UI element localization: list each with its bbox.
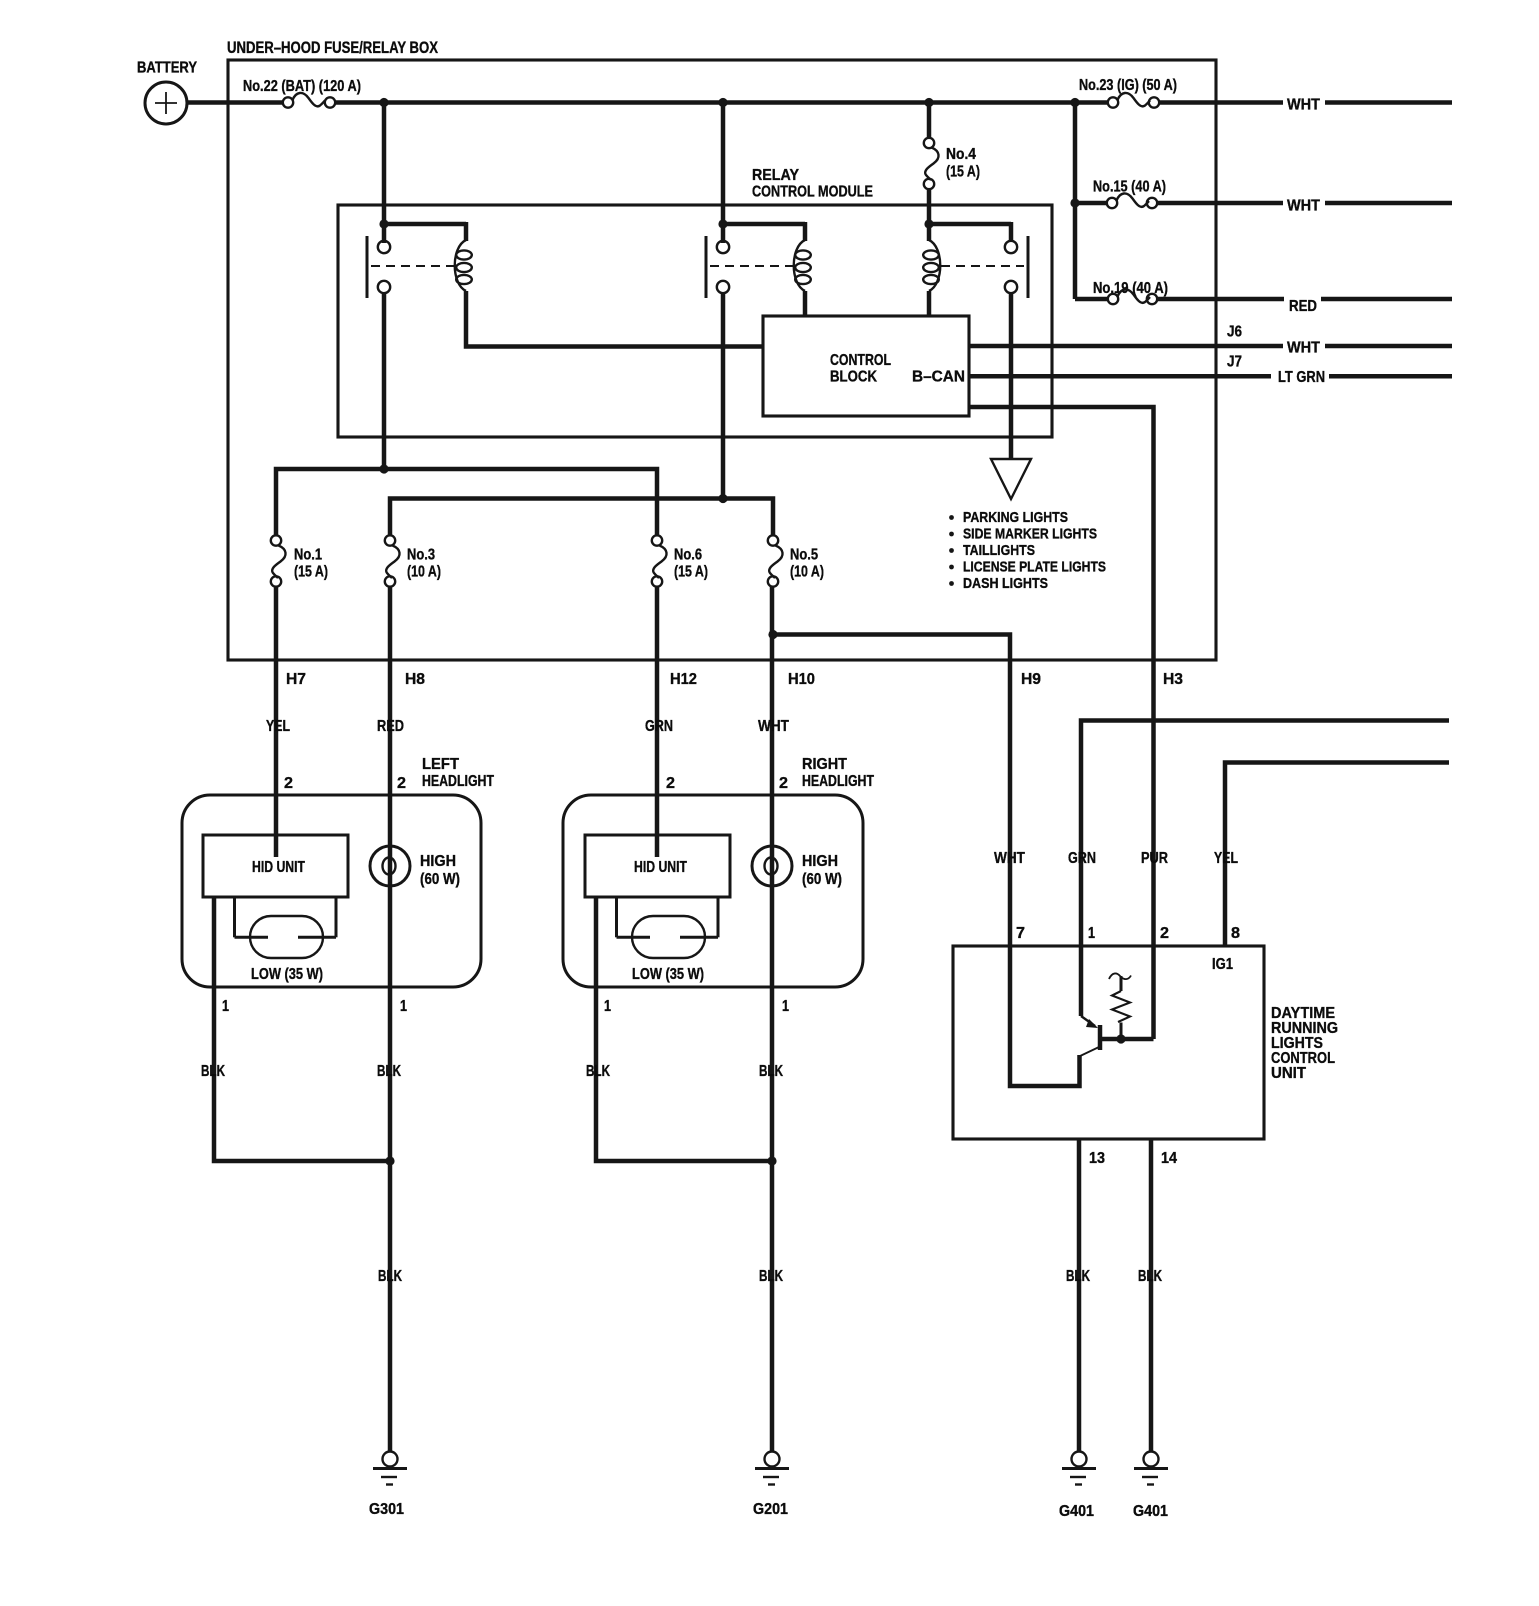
svg-text:WHT: WHT (1287, 97, 1320, 114)
svg-text:H12: H12 (670, 671, 697, 688)
right HID unit (585, 835, 730, 897)
wire relay2 contact output (721, 293, 726, 499)
svg-text:B–CAN: B–CAN (912, 369, 965, 386)
svg-text:G401: G401 (1133, 1503, 1168, 1520)
svg-text:(60 W): (60 W) (802, 871, 842, 888)
relay K3 (parking lights) (923, 222, 1028, 298)
svg-text:2: 2 (1160, 925, 1169, 942)
svg-text:LOW (35 W): LOW (35 W) (251, 966, 323, 983)
wire pin 13 to ground (1077, 1139, 1082, 1451)
svg-text:HIGH: HIGH (420, 853, 456, 870)
svg-text:GRN: GRN (1068, 850, 1096, 867)
wire main battery bus (335, 100, 1109, 105)
wire RED fuse No.3 to left high beam (388, 587, 393, 1162)
wire relay2 feed (721, 103, 726, 244)
battery B1 (137, 60, 197, 125)
node junction bus/relay1 feed (379, 98, 388, 107)
svg-text:BATTERY: BATTERY (137, 60, 197, 77)
svg-text:1: 1 (604, 998, 611, 1015)
svg-text:H10: H10 (788, 671, 815, 688)
wire GRN fuse No.6 to right HID (655, 587, 660, 858)
node junction bus/fuse No.4 feed (924, 98, 933, 107)
svg-text:No.3: No.3 (407, 547, 435, 564)
svg-text:BLK: BLK (1138, 1268, 1162, 1285)
svg-text:BLOCK: BLOCK (830, 369, 877, 386)
svg-text:No.6: No.6 (674, 547, 702, 564)
ground G401 right (1133, 1452, 1168, 1521)
svg-text:PUR: PUR (1141, 850, 1168, 867)
svg-text:SIDE MARKER LIGHTS: SIDE MARKER LIGHTS (963, 526, 1097, 543)
relay K1 (low beam) (367, 222, 472, 298)
resistor R1 (1109, 973, 1131, 1039)
svg-text:DASH LIGHTS: DASH LIGHTS (963, 575, 1048, 592)
wire WHT output of fuse No.23 (1159, 97, 1452, 114)
parking lights load list (949, 509, 1106, 592)
svg-text:No.4: No.4 (946, 146, 976, 163)
node junction IG/No.15 (1070, 198, 1079, 207)
wire battery positive to fuse No.22 (187, 100, 283, 105)
svg-text:G401: G401 (1059, 1503, 1094, 1520)
left low beam bulb LOW (35 W) (235, 897, 337, 983)
wire IG branch vertical (1073, 103, 1078, 300)
wire WHT pin7 to transistor emitter (1010, 946, 1080, 1086)
svg-text:BLK: BLK (586, 1063, 610, 1080)
left headlight assembly (182, 756, 494, 987)
svg-text:14: 14 (1161, 1150, 1177, 1167)
wire GRN drl input (1081, 721, 1449, 947)
node junction relay3 (924, 219, 933, 228)
fuse No.23 (IG) (50 A) (1079, 77, 1177, 108)
wire headlight fuse rail 1 (276, 469, 657, 535)
wire relay1 contact output (382, 293, 387, 469)
wire YEL fuse No.1 to left HID (274, 587, 279, 858)
svg-text:2: 2 (779, 775, 788, 792)
wire right BLK to ground (770, 1161, 775, 1451)
wire YEL drl input (1225, 763, 1449, 947)
wire left HID ground BLK (214, 897, 390, 1161)
svg-text:BLK: BLK (378, 1268, 402, 1285)
svg-text:H3: H3 (1163, 671, 1183, 688)
svg-text:LOW (35 W): LOW (35 W) (632, 966, 704, 983)
svg-text:LEFT: LEFT (422, 756, 459, 773)
svg-text:1: 1 (400, 998, 407, 1015)
svg-text:HID UNIT: HID UNIT (252, 859, 305, 876)
svg-text:LT GRN: LT GRN (1278, 369, 1325, 386)
svg-text:YEL: YEL (266, 718, 290, 735)
right low beam bulb LOW (35 W) (617, 897, 719, 983)
svg-text:7: 7 (1016, 925, 1025, 942)
svg-text:WHT: WHT (1287, 198, 1320, 215)
fuse No.3 (10 A) (385, 535, 441, 586)
svg-text:No.1: No.1 (294, 547, 322, 564)
arrow to parking lights (991, 459, 1031, 499)
svg-text:HEADLIGHT: HEADLIGHT (422, 773, 494, 790)
svg-text:GRN: GRN (645, 718, 673, 735)
right high beam bulb HIGH (60 W) (752, 846, 842, 888)
node junction relay1 output / rail 1 (379, 464, 388, 473)
wire relay2 coil to control block (803, 291, 808, 316)
fuse No.22 (BAT) (120 A) (243, 78, 361, 108)
svg-text:No.15 (40 A): No.15 (40 A) (1093, 179, 1166, 196)
svg-text:G301: G301 (369, 1501, 404, 1518)
daytime running lights control unit box (953, 946, 1338, 1139)
wire WHT output of fuse No.15 (1157, 198, 1452, 215)
control block U1 (763, 316, 969, 416)
wire RED output of fuse No.19 (1157, 298, 1452, 315)
node junction fuse No.5 output (768, 630, 777, 639)
right headlight assembly (563, 756, 874, 987)
transistor Q1 (1078, 1016, 1154, 1057)
svg-text:WHT: WHT (1287, 340, 1320, 357)
svg-text:H9: H9 (1021, 671, 1041, 688)
svg-text:BLK: BLK (201, 1063, 225, 1080)
node junction right BLK (767, 1156, 776, 1165)
wire relay1 feed (382, 103, 387, 244)
svg-text:PARKING LIGHTS: PARKING LIGHTS (963, 509, 1068, 526)
svg-text:UNDER–HOOD FUSE/RELAY BOX: UNDER–HOOD FUSE/RELAY BOX (227, 38, 439, 57)
node junction bus/relay2 feed (718, 98, 727, 107)
svg-text:J6: J6 (1227, 324, 1242, 341)
ground G301 (369, 1452, 407, 1519)
fuse No.1 (15 A) (271, 535, 328, 586)
fuse No.5 (10 A) (768, 535, 824, 586)
svg-text:No.5: No.5 (790, 547, 818, 564)
svg-text:RED: RED (1289, 298, 1317, 315)
wire PUR pin2 inside (1151, 946, 1156, 1039)
svg-text:13: 13 (1089, 1150, 1105, 1167)
svg-text:BLK: BLK (377, 1063, 401, 1080)
svg-text:(15 A): (15 A) (674, 564, 708, 581)
svg-text:IG1: IG1 (1212, 956, 1233, 973)
wire J7 LT GRN B-CAN from control block (969, 354, 1452, 387)
node junction relay2 output / rail 2 (718, 494, 727, 503)
wire pin 14 to ground (1149, 1139, 1154, 1451)
svg-text:(10 A): (10 A) (790, 564, 824, 581)
node junction collector/resistor (1116, 1034, 1125, 1043)
wire WHT fuse No.5 to right high beam (770, 587, 775, 1162)
wire GRN pin1 inside (1079, 946, 1084, 1016)
left HID unit (203, 835, 348, 897)
svg-text:2: 2 (666, 775, 675, 792)
fuse No.19 (40 A) (1075, 280, 1168, 304)
svg-text:No.19 (40 A): No.19 (40 A) (1093, 280, 1168, 297)
wire fuse No.5 output to H9 (773, 635, 1010, 947)
svg-text:BLK: BLK (759, 1063, 783, 1080)
svg-text:HIGH: HIGH (802, 853, 838, 870)
svg-text:2: 2 (397, 775, 406, 792)
svg-text:HID UNIT: HID UNIT (634, 859, 687, 876)
svg-text:1: 1 (782, 998, 789, 1015)
wire headlight fuse rail 2 (390, 499, 773, 536)
left high beam bulb HIGH (60 W) (370, 846, 460, 888)
svg-text:TAILLIGHTS: TAILLIGHTS (963, 542, 1035, 559)
node junction relay1 (379, 219, 388, 228)
relay K2 (high beam) (706, 222, 811, 298)
svg-text:8: 8 (1231, 925, 1240, 942)
svg-text:HEADLIGHT: HEADLIGHT (802, 773, 874, 790)
svg-text:CONTROL MODULE: CONTROL MODULE (752, 184, 873, 201)
fuse No.15 (40 A) (1075, 179, 1166, 209)
svg-text:UNIT: UNIT (1271, 1065, 1306, 1082)
relay control module box (338, 167, 1052, 437)
svg-text:J7: J7 (1227, 354, 1242, 371)
svg-text:WHT: WHT (994, 850, 1025, 867)
svg-text:LICENSE PLATE LIGHTS: LICENSE PLATE LIGHTS (963, 559, 1106, 576)
wire relay3 coil to control block (927, 291, 932, 316)
svg-text:BLK: BLK (759, 1268, 783, 1285)
wire relay3 contact output (1009, 293, 1014, 458)
fuse No.6 (15 A) (652, 535, 708, 586)
svg-text:CONTROL: CONTROL (830, 352, 891, 369)
svg-text:1: 1 (1088, 925, 1095, 942)
wire left BLK to ground (388, 1161, 393, 1451)
svg-text:RELAY: RELAY (752, 167, 799, 184)
svg-text:2: 2 (284, 775, 293, 792)
node junction relay2 (718, 219, 727, 228)
svg-text:No.23 (IG) (50 A): No.23 (IG) (50 A) (1079, 77, 1177, 94)
wire control block to H3 PUR (969, 407, 1154, 946)
svg-text:(10 A): (10 A) (407, 564, 441, 581)
svg-text:WHT: WHT (758, 718, 789, 735)
node junction bus/IG branch (1070, 98, 1079, 107)
fuse No.4 (15 A) (924, 103, 980, 225)
svg-text:(15 A): (15 A) (294, 564, 328, 581)
node junction left BLK (385, 1156, 394, 1165)
ground G201 (753, 1452, 789, 1519)
ground G401 left (1059, 1452, 1096, 1521)
svg-text:H7: H7 (286, 671, 306, 688)
wire right HID ground BLK (596, 897, 772, 1161)
svg-text:(15 A): (15 A) (946, 164, 980, 181)
svg-text:RIGHT: RIGHT (802, 756, 847, 773)
wire relay1 coil to control block (466, 291, 763, 347)
svg-text:YEL: YEL (1214, 850, 1238, 867)
svg-text:RED: RED (377, 718, 404, 735)
svg-text:1: 1 (222, 998, 229, 1015)
svg-text:BLK: BLK (1066, 1268, 1090, 1285)
svg-text:G201: G201 (753, 1501, 788, 1518)
wire J6 WHT from control block (969, 324, 1452, 357)
under-hood fuse/relay box (227, 38, 1216, 660)
svg-text:(60 W): (60 W) (420, 871, 460, 888)
svg-text:H8: H8 (405, 671, 425, 688)
